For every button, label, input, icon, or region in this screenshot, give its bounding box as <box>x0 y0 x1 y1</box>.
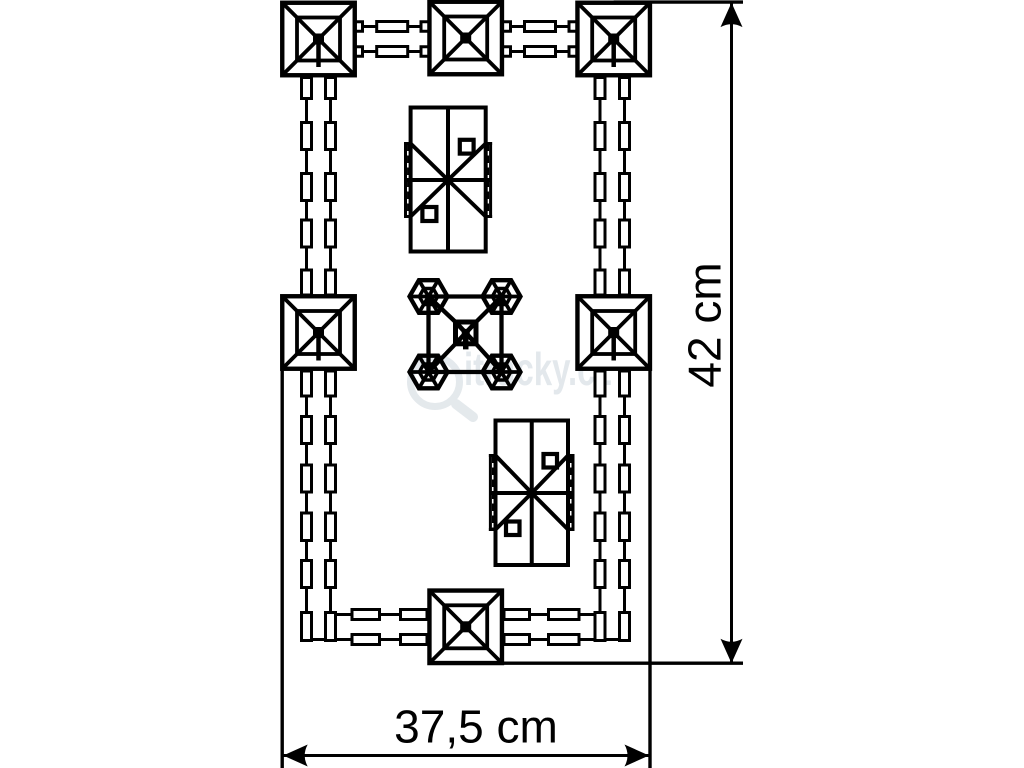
post bottom upper row right b <box>549 610 580 620</box>
keep central tower <box>456 322 477 349</box>
stub top lower row at tower T1 <box>355 47 363 57</box>
post right outer wall y173 <box>620 174 630 201</box>
wire keep courtyard square right <box>499 297 503 373</box>
post right inner wall y513 <box>595 513 605 541</box>
wire bottom wall upper line <box>331 613 601 616</box>
post left inner wall y122 <box>326 123 336 150</box>
corner plug bottom-right inner <box>595 613 605 641</box>
watermark magnifier logo <box>411 358 474 418</box>
stub left inner wall y270 <box>326 270 336 295</box>
post right outer wall y560 <box>620 561 630 588</box>
post left outer wall y416 <box>302 417 312 444</box>
post right inner wall y560 <box>595 561 605 588</box>
post left outer wall y465 <box>302 465 312 492</box>
wire keep diagonal to NE turret <box>476 297 502 323</box>
post right inner wall y416 <box>595 417 605 444</box>
wire left wall inner line upper segment <box>329 75 332 297</box>
arrowhead top of 42 cm dimension <box>721 3 743 28</box>
extension line bottom right (from tower T6 to height dimension) <box>503 662 743 665</box>
corner plug left inner wall y612 <box>326 613 336 641</box>
svg-text:42 cm: 42 cm <box>679 262 731 387</box>
post right inner wall y220 <box>595 220 605 247</box>
wire keep diagonal to SE turret <box>476 344 502 372</box>
post left outer wall y560 <box>302 561 312 588</box>
post right outer wall y220 <box>620 220 630 247</box>
post bottom upper row left b <box>401 610 428 620</box>
post bottom lower row right b <box>549 635 580 645</box>
stub right inner wall y270 <box>595 270 605 295</box>
extension line left (from tower T4 to width dimension) <box>281 368 284 768</box>
corner plug bottom-left outer <box>302 613 312 641</box>
post right outer wall y416 <box>620 417 630 444</box>
wire left wall outer line upper segment <box>305 75 308 297</box>
keep turret NW <box>410 280 448 313</box>
building H2 great hall (lower) <box>489 421 575 566</box>
post right outer wall y513 <box>620 513 630 541</box>
stub right inner wall y371 <box>595 371 605 396</box>
post left outer wall y513 <box>302 513 312 541</box>
corner plug bottom-right outer <box>620 613 630 641</box>
post right inner wall y122 <box>595 123 605 150</box>
wire keep courtyard square top <box>429 294 502 298</box>
post bottom lower row right a <box>504 635 530 645</box>
stub right outer wall y77 <box>620 78 630 99</box>
building H1 great hall (upper) <box>404 108 492 252</box>
tower T5 middle-right <box>577 296 650 369</box>
stub left outer wall y270 <box>302 270 312 295</box>
post left inner wall y465 <box>326 465 336 492</box>
post left inner wall y220 <box>326 220 336 247</box>
wire right wall outer line upper segment <box>623 75 626 297</box>
post left outer wall y173 <box>302 174 312 201</box>
wire left wall outer line lower segment <box>305 368 308 641</box>
post left inner wall y416 <box>326 417 336 444</box>
tower T4 middle-left <box>282 296 355 369</box>
stub top lower row at tower T2 right <box>503 47 511 57</box>
svg-text:37,5 cm: 37,5 cm <box>394 701 558 753</box>
wire right wall inner line lower segment <box>599 368 602 641</box>
stub right outer wall y371 <box>620 371 630 396</box>
stub left outer wall y77 <box>302 78 312 99</box>
post right inner wall y173 <box>595 174 605 201</box>
extension line top (from tower T3 to height dimension) <box>614 0 743 3</box>
post right inner wall y465 <box>595 465 605 492</box>
wire keep courtyard square left <box>426 297 430 373</box>
post left outer wall y122 <box>302 123 312 150</box>
extension line right (from tower T5 to width dimension) <box>648 368 651 768</box>
wire bottom wall lower line <box>307 638 625 641</box>
arrowhead left of 37,5 cm dimension <box>283 745 308 767</box>
stub top upper row at tower T3 <box>569 22 577 32</box>
corner plug right inner wall y612 <box>595 613 605 641</box>
post bottom lower row left a <box>352 635 380 645</box>
stub left outer wall y371 <box>302 371 312 396</box>
wire keep diagonal to NW turret <box>429 297 456 323</box>
stub top upper row at tower T2 left <box>421 22 429 32</box>
wire right wall outer line lower segment <box>623 368 626 641</box>
stub left inner wall y77 <box>326 78 336 99</box>
tower T1 top-left <box>282 3 355 76</box>
arrowhead bottom of 42 cm dimension <box>721 639 743 664</box>
post top upper row T1-T2 <box>377 22 408 32</box>
post bottom upper row right a <box>504 610 530 620</box>
corner plug right outer wall y612 <box>620 613 630 641</box>
post left outer wall y220 <box>302 220 312 247</box>
post right outer wall y465 <box>620 465 630 492</box>
corner plug left outer wall y612 <box>302 613 312 641</box>
post bottom upper row left a <box>352 610 380 620</box>
tower T2 top-middle <box>429 2 502 75</box>
stub left inner wall y371 <box>326 371 336 396</box>
wire keep courtyard square bottom <box>429 370 502 374</box>
keep turret SE <box>483 356 521 389</box>
tower T3 top-right <box>577 3 650 76</box>
wire top wall upper line <box>319 25 614 28</box>
wire keep diagonal to SW turret <box>429 344 456 372</box>
wire left wall inner line lower segment <box>329 368 332 641</box>
stub top upper row at tower T2 right <box>503 22 511 32</box>
wire top wall lower line <box>319 50 614 53</box>
keep turret NE <box>483 280 521 313</box>
stub right inner wall y77 <box>595 78 605 99</box>
stub top lower row at tower T3 <box>569 47 577 57</box>
post left inner wall y173 <box>326 174 336 201</box>
stub top lower row at tower T2 left <box>421 47 429 57</box>
dimension line height 42 cm <box>730 2 733 663</box>
post top lower row T2-T3 <box>525 47 556 57</box>
post top lower row T1-T2 <box>377 47 408 57</box>
dimension line width 37,5 cm <box>282 754 650 757</box>
tower T6 bottom-middle <box>429 591 502 664</box>
post bottom lower row left b <box>401 635 428 645</box>
post left inner wall y513 <box>326 513 336 541</box>
post top upper row T2-T3 <box>525 22 556 32</box>
stub top upper row at tower T1 <box>355 22 363 32</box>
post right outer wall y122 <box>620 123 630 150</box>
keep turret SW <box>410 356 448 389</box>
corner plug bottom-left inner <box>326 613 336 641</box>
post left inner wall y560 <box>326 561 336 588</box>
arrowhead right of 37,5 cm dimension <box>625 745 650 767</box>
stub right outer wall y270 <box>620 270 630 295</box>
wire right wall inner line upper segment <box>599 75 602 297</box>
